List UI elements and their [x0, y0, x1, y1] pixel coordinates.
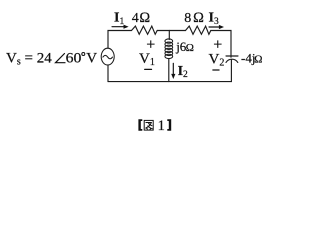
- current arrow I3: [209, 25, 224, 29]
- capacitor -4jΩ (curved plate): [226, 59, 238, 62]
- svg-text:I1: I1: [114, 11, 124, 27]
- svg-text:Vs = 24: Vs = 24: [6, 51, 52, 68]
- caption 【图 1】: [138, 118, 171, 134]
- svg-text:Ω: Ω: [193, 10, 204, 26]
- wire middle branch stub from top wire to inductor: [168, 31, 170, 40]
- label Vs = 24∠60°V: [6, 51, 97, 68]
- label − polarity of V1: [145, 68, 152, 70]
- svg-text:8: 8: [184, 11, 191, 26]
- wire from source top to top-left corner and to 4Ω resistor: [108, 31, 132, 49]
- label − polarity of V2: [213, 69, 219, 71]
- wire between 4Ω and 8Ω (junction with middle branch): [157, 30, 185, 32]
- degree symbol: [82, 53, 85, 56]
- svg-text:Ω: Ω: [254, 53, 262, 65]
- svg-text:V: V: [86, 51, 97, 67]
- bottom rail wire: [108, 81, 231, 83]
- svg-text:Ω: Ω: [186, 42, 194, 54]
- wire from capacitor to bottom-right corner: [230, 60, 232, 82]
- svg-text:4: 4: [132, 11, 139, 26]
- svg-text:V1: V1: [139, 51, 155, 68]
- svg-text:1: 1: [158, 118, 165, 134]
- wire from 8Ω to top-right corner down to capacitor: [211, 31, 231, 58]
- svg-text:Ω: Ω: [139, 10, 150, 26]
- inductor j6Ω (coil): [165, 39, 173, 59]
- wire from source bottom to bottom rail: [107, 65, 109, 82]
- current arrow I1: [112, 25, 129, 29]
- wire middle branch from inductor to bottom rail: [168, 59, 170, 82]
- capacitor -4jΩ (flat plate): [226, 55, 238, 57]
- svg-text:I2: I2: [178, 64, 188, 80]
- resistor 4Ω: [132, 26, 158, 34]
- angle symbol of phase: [56, 54, 66, 63]
- voltage source Vs (AC source circle with sine): [101, 48, 114, 65]
- svg-text:V2: V2: [209, 52, 225, 69]
- svg-text:60: 60: [66, 51, 82, 67]
- resistor 8Ω: [186, 26, 211, 34]
- current arrow I2: [171, 63, 175, 79]
- svg-text:I3: I3: [209, 11, 219, 27]
